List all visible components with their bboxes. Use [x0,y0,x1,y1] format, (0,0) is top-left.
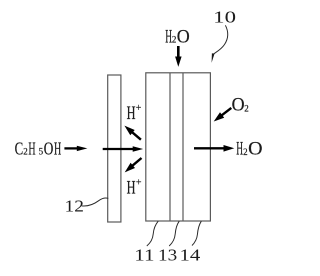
svg-text:H: H [236,139,243,160]
svg-text:C: C [15,139,24,159]
svg-text:2: 2 [244,104,249,114]
svg-text:12: 12 [65,197,84,216]
svg-text:H: H [127,104,136,124]
svg-text:O: O [248,139,262,160]
leader line from 14 [192,221,201,245]
label C2H5OH [15,139,62,159]
svg-text:H: H [54,139,61,159]
svg-text:O: O [232,95,245,116]
label H+ lower [127,177,142,198]
svg-text:13: 13 [158,246,177,265]
membrane electrode assembly box (11/13/14) [146,73,211,221]
wire: inner divider line left (11|13) [169,73,171,221]
svg-text:H: H [28,139,35,159]
wire: inner divider line right (13|14) [182,73,184,221]
arrow: fuel through separator (right arrow) [103,148,134,150]
svg-text:2: 2 [23,147,28,157]
arrow: C2H5OH in (short right arrow) [64,147,77,149]
svg-text:14: 14 [180,246,201,265]
leader line from 13 [169,221,179,246]
arrow: H+ lower (diagonal, pointing lower-left) [132,158,141,166]
svg-text:H: H [127,179,136,199]
svg-text:+: + [136,103,142,114]
leader line from 12 [82,198,109,206]
svg-text:O: O [177,27,190,48]
leader arrowhead of 10 [212,53,215,63]
leader line from 11 [147,221,158,246]
separator plate 12 (thin rectangle) [108,75,121,222]
svg-text:10: 10 [213,8,236,27]
svg-text:11: 11 [134,246,154,265]
label H+ upper [127,103,142,124]
arrow: O2 in (diagonal, pointing lower-left) [222,108,232,115]
svg-text:+: + [136,177,142,188]
leader line from 10 [213,25,227,54]
label H2O top [165,27,190,48]
arrow: H2O in (top, pointing down) [177,46,180,57]
arrow: H2O out (right side) [194,147,224,149]
arrow: H+ upper (diagonal, pointing upper-left) [132,132,141,140]
label H2O right [236,139,262,160]
svg-text:O: O [44,139,54,159]
label O2 [232,95,249,116]
svg-text:2: 2 [243,147,248,157]
